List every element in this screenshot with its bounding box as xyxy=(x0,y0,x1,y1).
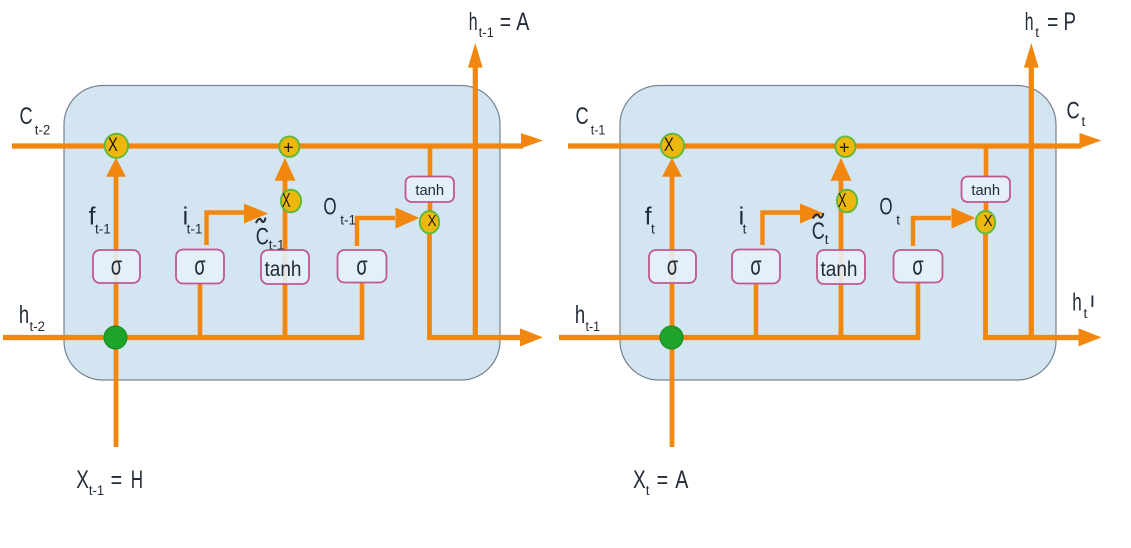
svg-text:t: t xyxy=(896,213,900,228)
wire: output-gate sigma drop to h line (left cell) xyxy=(360,283,365,341)
sigma gate box (output) right cell xyxy=(894,250,943,283)
wire: output branch from C line through tanh and multiply to h line (right cell) xyxy=(983,146,988,340)
svg-text:tanh: tanh xyxy=(971,182,1000,199)
svg-text:X: X xyxy=(108,135,118,156)
wire: output-gate sigma drop to h line (right cell) xyxy=(916,283,921,341)
wire: hidden-state h input line (left cell) xyxy=(3,335,364,340)
svg-text:t: t xyxy=(1035,25,1039,40)
svg-text:t-1: t-1 xyxy=(479,25,494,40)
tanh gate box (candidate) left cell xyxy=(261,250,309,284)
svg-text:X: X xyxy=(664,135,674,156)
wire: O elbow arrow into output multiply node (left cell) xyxy=(357,208,420,247)
svg-text:h: h xyxy=(1025,8,1034,36)
label candidate C tilde (right cell) xyxy=(813,214,823,218)
svg-text:t-2: t-2 xyxy=(35,122,51,137)
svg-text:tanh: tanh xyxy=(415,182,444,199)
wire: cell-state C line with output arrow (left cell) xyxy=(12,133,543,148)
svg-text:t: t xyxy=(651,222,655,237)
svg-text:t-1: t-1 xyxy=(95,222,111,237)
sigma gate box (input) right cell xyxy=(732,250,780,284)
LSTM cell body (left cell) xyxy=(64,86,500,381)
svg-text:h: h xyxy=(575,301,585,329)
svg-text:σ: σ xyxy=(356,251,367,281)
multiply node X3 output right cell xyxy=(976,211,995,233)
add node on C line left cell xyxy=(279,136,299,157)
svg-text:C: C xyxy=(576,103,589,130)
svg-text:=: = xyxy=(111,466,123,494)
LSTM cell body (right cell) xyxy=(620,86,1056,381)
multiply node X3 output left cell xyxy=(420,211,439,233)
multiply node X1 on C line left cell xyxy=(105,134,128,158)
label candidate C tilde (left cell) xyxy=(256,219,265,223)
wire: O elbow arrow into output multiply node (right cell) xyxy=(913,208,976,247)
svg-text:A: A xyxy=(516,8,529,36)
svg-text:=: = xyxy=(1047,8,1058,36)
svg-text:h: h xyxy=(19,301,29,329)
sigma gate box (forget) right cell xyxy=(649,250,696,283)
wire: output branch from C line through tanh and multiply to h line (left cell) xyxy=(427,146,432,340)
wire: i elbow arrow toward candidate path (right cell) xyxy=(763,204,825,246)
svg-text:t-1: t-1 xyxy=(187,222,203,237)
wire: h output line with arrow (right cell) xyxy=(983,328,1102,346)
wire: h vertical branch up out of cell with arrow (left cell) xyxy=(468,43,483,340)
svg-text:O: O xyxy=(879,194,892,221)
wire: X input / forget vertical with arrow into multiply node (left cell) xyxy=(106,158,126,447)
sigma gate box (output) left cell xyxy=(338,250,387,283)
multiply node X1 on C line right cell xyxy=(661,134,684,158)
svg-text:t-1: t-1 xyxy=(591,122,606,137)
svg-text:=: = xyxy=(500,8,511,36)
svg-text:=: = xyxy=(657,466,669,494)
svg-text:X: X xyxy=(428,213,437,230)
svg-text:C: C xyxy=(256,224,269,251)
green junction node on h line right cell xyxy=(660,326,683,349)
svg-text:t-1: t-1 xyxy=(586,319,601,334)
wire: cell-state C line with output arrow (right cell) xyxy=(568,133,1102,148)
svg-text:X: X xyxy=(282,190,291,212)
svg-text:H: H xyxy=(131,466,143,494)
tanh box small (output squash) right cell xyxy=(962,177,1011,203)
svg-text:t-2: t-2 xyxy=(30,319,46,334)
add node on C line right cell xyxy=(835,136,855,157)
svg-text:t: t xyxy=(743,222,747,237)
svg-text:h: h xyxy=(1072,289,1082,317)
svg-text:X: X xyxy=(76,466,89,494)
svg-text:tanh: tanh xyxy=(821,258,858,281)
svg-text:+: + xyxy=(839,138,850,158)
wire: h output line with arrow (left cell) xyxy=(427,328,543,346)
sigma gate box (input) left cell xyxy=(176,250,224,284)
tanh gate box (candidate) right cell xyxy=(817,250,865,284)
svg-text:X: X xyxy=(633,466,646,494)
svg-text:+: + xyxy=(283,138,294,158)
svg-text:t: t xyxy=(646,483,650,498)
svg-text:P: P xyxy=(1064,8,1077,36)
wire: candidate tanh vertical up to add node (left cell) xyxy=(275,158,296,340)
wire: X input / forget vertical with arrow into multiply node (right cell) xyxy=(662,158,682,447)
svg-text:A: A xyxy=(675,466,688,494)
svg-text:O: O xyxy=(323,194,336,221)
svg-text:t: t xyxy=(1084,306,1088,321)
svg-text:σ: σ xyxy=(750,251,761,281)
svg-text:C: C xyxy=(812,218,825,245)
svg-text:t: t xyxy=(825,232,829,247)
green junction node on h line left cell xyxy=(104,326,127,349)
svg-text:σ: σ xyxy=(667,251,678,281)
sigma gate box (forget) left cell xyxy=(93,250,140,283)
svg-text:t-1: t-1 xyxy=(340,213,356,228)
wire: i elbow arrow toward candidate path (left cell) xyxy=(207,204,269,246)
svg-text:t: t xyxy=(1082,114,1086,129)
tanh box small (output squash) left cell xyxy=(406,177,455,203)
svg-text:X: X xyxy=(838,190,847,212)
svg-text:t-1: t-1 xyxy=(89,483,104,498)
wire: input-gate sigma drop to h line (right cell) xyxy=(754,283,759,340)
svg-text:σ: σ xyxy=(111,251,122,281)
svg-text:tanh: tanh xyxy=(265,258,302,281)
svg-text:X: X xyxy=(984,213,993,230)
wire: hidden-state h input line (right cell) xyxy=(559,335,920,340)
svg-text:σ: σ xyxy=(194,251,205,281)
multiply node X2 candidate right cell xyxy=(837,190,857,213)
svg-text:σ: σ xyxy=(912,251,923,281)
svg-text:C: C xyxy=(20,103,33,130)
wire: h vertical branch up out of cell with arrow (right cell) xyxy=(1024,43,1039,340)
svg-text:h: h xyxy=(469,8,478,36)
wire: input-gate sigma drop to h line (left cell) xyxy=(198,283,203,340)
svg-text:t-1: t-1 xyxy=(269,237,285,252)
multiply node X2 candidate left cell xyxy=(281,190,301,213)
wire: candidate tanh vertical up to add node (right cell) xyxy=(831,158,852,340)
svg-text:C: C xyxy=(1067,98,1080,125)
